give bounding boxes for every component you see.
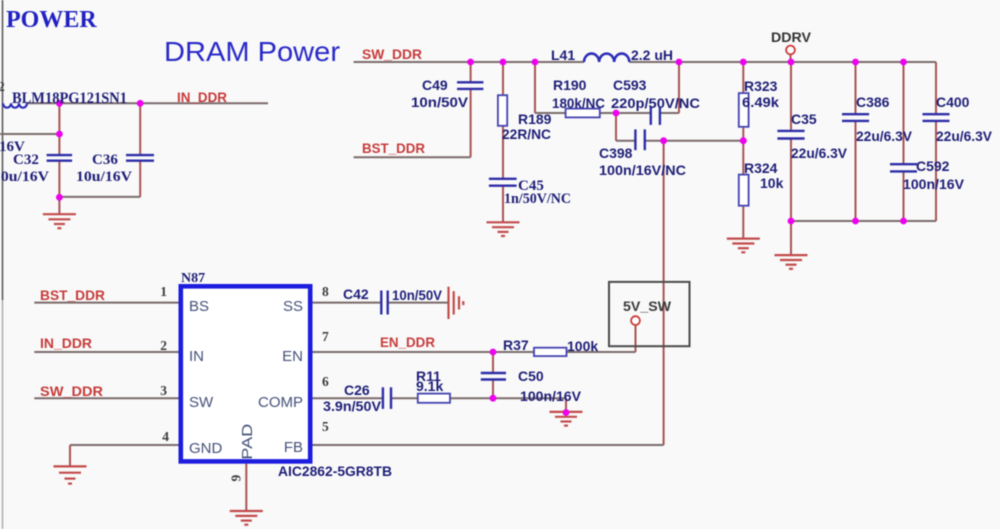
capacitor C26 [382, 387, 384, 409]
node EN/C50 [490, 349, 497, 356]
svg-text:5: 5 [322, 419, 329, 434]
wire left stub to C32 node [0, 133, 59, 135]
capacitor C45 [489, 178, 517, 180]
svg-text:22u/6.3V: 22u/6.3V [936, 128, 993, 144]
wire pin7 EN [313, 351, 535, 353]
svg-text:1: 1 [160, 284, 167, 299]
ground C45 [487, 222, 520, 236]
wire pin1 BST_DDR [34, 302, 178, 304]
svg-text:EN_DDR: EN_DDR [380, 334, 435, 350]
capacitor C398 [634, 129, 636, 150]
node R323/R324 [740, 137, 747, 144]
wire C593 row [616, 112, 650, 114]
resistor R189 [498, 95, 507, 126]
ground R324 [727, 239, 760, 253]
node R189 top [500, 59, 507, 66]
wire SW_DDR top bus [354, 61, 584, 63]
power port DDRV [786, 46, 795, 55]
capacitor C49 [457, 81, 483, 83]
wire pin5 FB [313, 444, 664, 446]
svg-text:9: 9 [229, 475, 244, 482]
node bead/C32 [56, 100, 63, 107]
svg-text:5V_SW: 5V_SW [623, 298, 672, 314]
svg-text:C26: C26 [344, 382, 370, 398]
svg-text:7: 7 [322, 329, 329, 344]
capacitor C36 [126, 154, 154, 156]
op-amp U1 IC N87 AIC2862 body [181, 286, 310, 461]
svg-text:SW_DDR: SW_DDR [362, 46, 422, 62]
wire DDRV stub [790, 54, 792, 62]
svg-text:22R/NC: 22R/NC [502, 126, 551, 142]
svg-text:C592: C592 [916, 158, 950, 174]
svg-text:R190: R190 [553, 77, 587, 93]
node C35 bottom [788, 218, 795, 225]
wire C400 branch [935, 62, 937, 114]
svg-text:IN_DDR: IN_DDR [40, 335, 92, 351]
svg-text:BLM18PG121SN1: BLM18PG121SN1 [12, 90, 127, 107]
wire FB riser [663, 141, 665, 445]
wire C398 row [615, 113, 617, 141]
svg-text:8: 8 [322, 284, 329, 299]
resistor R323 [739, 93, 749, 127]
wire pin4 GND [70, 444, 179, 446]
svg-text:C35: C35 [791, 111, 817, 127]
node C386 bottom [852, 218, 859, 225]
svg-text:10u/16V: 10u/16V [0, 169, 49, 185]
svg-text:22u/6.3V: 22u/6.3V [791, 145, 848, 161]
ground sideways C42 [449, 287, 464, 319]
svg-text:SW_DDR: SW_DDR [40, 383, 103, 399]
svg-text:100n/16V/NC: 100n/16V/NC [599, 162, 686, 178]
inductor L41 [584, 54, 629, 62]
svg-text:R324: R324 [744, 160, 778, 176]
wire bottom bus [791, 220, 936, 222]
TITLES [6, 7, 340, 67]
ground C50 [550, 412, 583, 426]
svg-text:10u/16V: 10u/16V [76, 169, 132, 185]
svg-text:9.1k: 9.1k [416, 378, 443, 394]
svg-text:FB: FB [284, 439, 303, 456]
svg-text:C32: C32 [13, 152, 39, 168]
box 5V_SW [609, 282, 690, 346]
svg-text:DRAM Power: DRAM Power [164, 36, 340, 67]
capacitor C592 [890, 163, 917, 165]
node C593 right top [676, 59, 683, 66]
wire C49 branch [470, 62, 472, 82]
svg-text:4: 4 [162, 429, 169, 444]
svg-text:N87: N87 [181, 271, 205, 286]
wire R190 feed [534, 62, 536, 113]
wire BST_DDR [354, 156, 471, 158]
resistor R324 [739, 175, 749, 206]
capacitor C32 [47, 154, 73, 156]
node R323 top [740, 59, 747, 66]
power port 5V_SW [631, 316, 640, 325]
svg-text:100n/16V: 100n/16V [903, 176, 965, 192]
wire R189 branch [502, 62, 504, 95]
node C49 top [467, 59, 474, 66]
node C398 right [660, 137, 667, 144]
svg-text:IN: IN [189, 348, 204, 365]
svg-text:EN: EN [282, 348, 303, 365]
ground pin4 GND [54, 466, 87, 483]
ground bottom bus [775, 255, 808, 269]
wire pin9 stub [245, 464, 247, 511]
svg-text:C400: C400 [936, 94, 970, 110]
ground node C32/C36 [43, 214, 76, 228]
svg-text:C386: C386 [856, 94, 890, 110]
wire C386 branch [855, 62, 857, 114]
svg-text:DDRV: DDRV [771, 30, 811, 45]
svg-text:C49: C49 [422, 77, 448, 93]
svg-text:PAD: PAD [239, 424, 256, 460]
svg-text:10n/50V: 10n/50V [392, 287, 443, 303]
capacitor C400 [923, 113, 950, 115]
svg-text:SS: SS [283, 298, 303, 315]
node left stub [56, 131, 63, 138]
node C592 top [900, 59, 907, 66]
svg-text:BST_DDR: BST_DDR [362, 140, 425, 156]
svg-text:GND: GND [189, 440, 223, 457]
node C386 top [852, 59, 859, 66]
ferrite bead L? BLM18PG121SN1 [3, 103, 27, 107]
node C36 top [137, 100, 144, 107]
svg-text:10n/50V: 10n/50V [411, 94, 469, 110]
wire C35 branch [790, 62, 792, 131]
wire R323 branch [742, 62, 744, 93]
svg-text:BST_DDR: BST_DDR [40, 287, 105, 303]
node R190/C593 [613, 110, 620, 117]
node C32 bottom [56, 194, 63, 201]
svg-text:R189: R189 [518, 111, 552, 127]
wire C592 branch [903, 62, 905, 164]
svg-text:100n/16V: 100n/16V [520, 388, 582, 404]
svg-text:C42: C42 [343, 286, 369, 302]
svg-text:R37: R37 [503, 337, 529, 353]
svg-text:C593: C593 [613, 77, 647, 93]
resistor R37 [534, 348, 567, 356]
svg-text:180k/NC: 180k/NC [552, 95, 605, 111]
svg-text:3: 3 [160, 383, 167, 398]
node COMP/C50 [490, 395, 497, 402]
svg-text:POWER: POWER [6, 7, 97, 33]
wire pin6 COMP [313, 397, 383, 399]
wire C50 ground stub [565, 398, 567, 411]
resistor R11 [418, 394, 450, 403]
ground pin9 PAD [230, 511, 263, 525]
wire pin3 SW_DDR [34, 397, 178, 399]
svg-text:C36: C36 [92, 152, 118, 168]
svg-text:C398: C398 [599, 145, 633, 161]
wire C36 bottom link [59, 196, 140, 198]
svg-text:2: 2 [0, 79, 5, 94]
svg-text:1n/50V/NC: 1n/50V/NC [504, 191, 571, 207]
node DDRV [788, 59, 795, 66]
svg-text:AIC2862-5GR8TB: AIC2862-5GR8TB [278, 464, 392, 479]
svg-text:2: 2 [160, 338, 167, 353]
svg-text:L41: L41 [551, 47, 575, 63]
svg-text:10k: 10k [760, 175, 784, 191]
wire IN_DDR horizontal [26, 102, 268, 104]
svg-text:R323: R323 [744, 78, 778, 94]
svg-text:COMP: COMP [258, 394, 303, 411]
svg-text:22u/6.3V: 22u/6.3V [856, 128, 913, 144]
svg-text:3.9n/50V: 3.9n/50V [323, 398, 382, 414]
wire C32 branch [58, 103, 60, 155]
wire C36 branch [139, 103, 141, 155]
svg-text:6.49k: 6.49k [742, 94, 779, 110]
svg-text:C50: C50 [518, 368, 544, 384]
capacitor C42 [380, 291, 382, 315]
resistor R190 [566, 109, 600, 118]
svg-text:BS: BS [189, 298, 209, 315]
wire C50 vertical links [492, 352, 494, 373]
node R190 top [532, 59, 539, 66]
svg-text:2.2 uH: 2.2 uH [631, 47, 673, 63]
capacitor C35 [777, 130, 804, 132]
capacitor C50 [481, 372, 506, 374]
capacitor C593 [650, 107, 652, 125]
wire pin2 IN_DDR [34, 351, 178, 353]
SHEET-BORDER [2, 0, 4, 300]
wire R324 branch [742, 141, 744, 175]
capacitor C386 [842, 113, 869, 115]
node C592 bottom [900, 218, 907, 225]
node C50 ground [563, 409, 570, 416]
svg-text:220p/50V/NC: 220p/50V/NC [611, 95, 700, 111]
svg-text:IN_DDR: IN_DDR [177, 89, 227, 105]
svg-text:100k: 100k [567, 338, 598, 354]
wire C35 ground stub [790, 221, 792, 255]
svg-text:6: 6 [322, 374, 329, 389]
wire C45 ground stub [502, 186, 504, 222]
wire pin8 SS to C42 [313, 302, 382, 304]
svg-text:SW: SW [189, 394, 214, 411]
